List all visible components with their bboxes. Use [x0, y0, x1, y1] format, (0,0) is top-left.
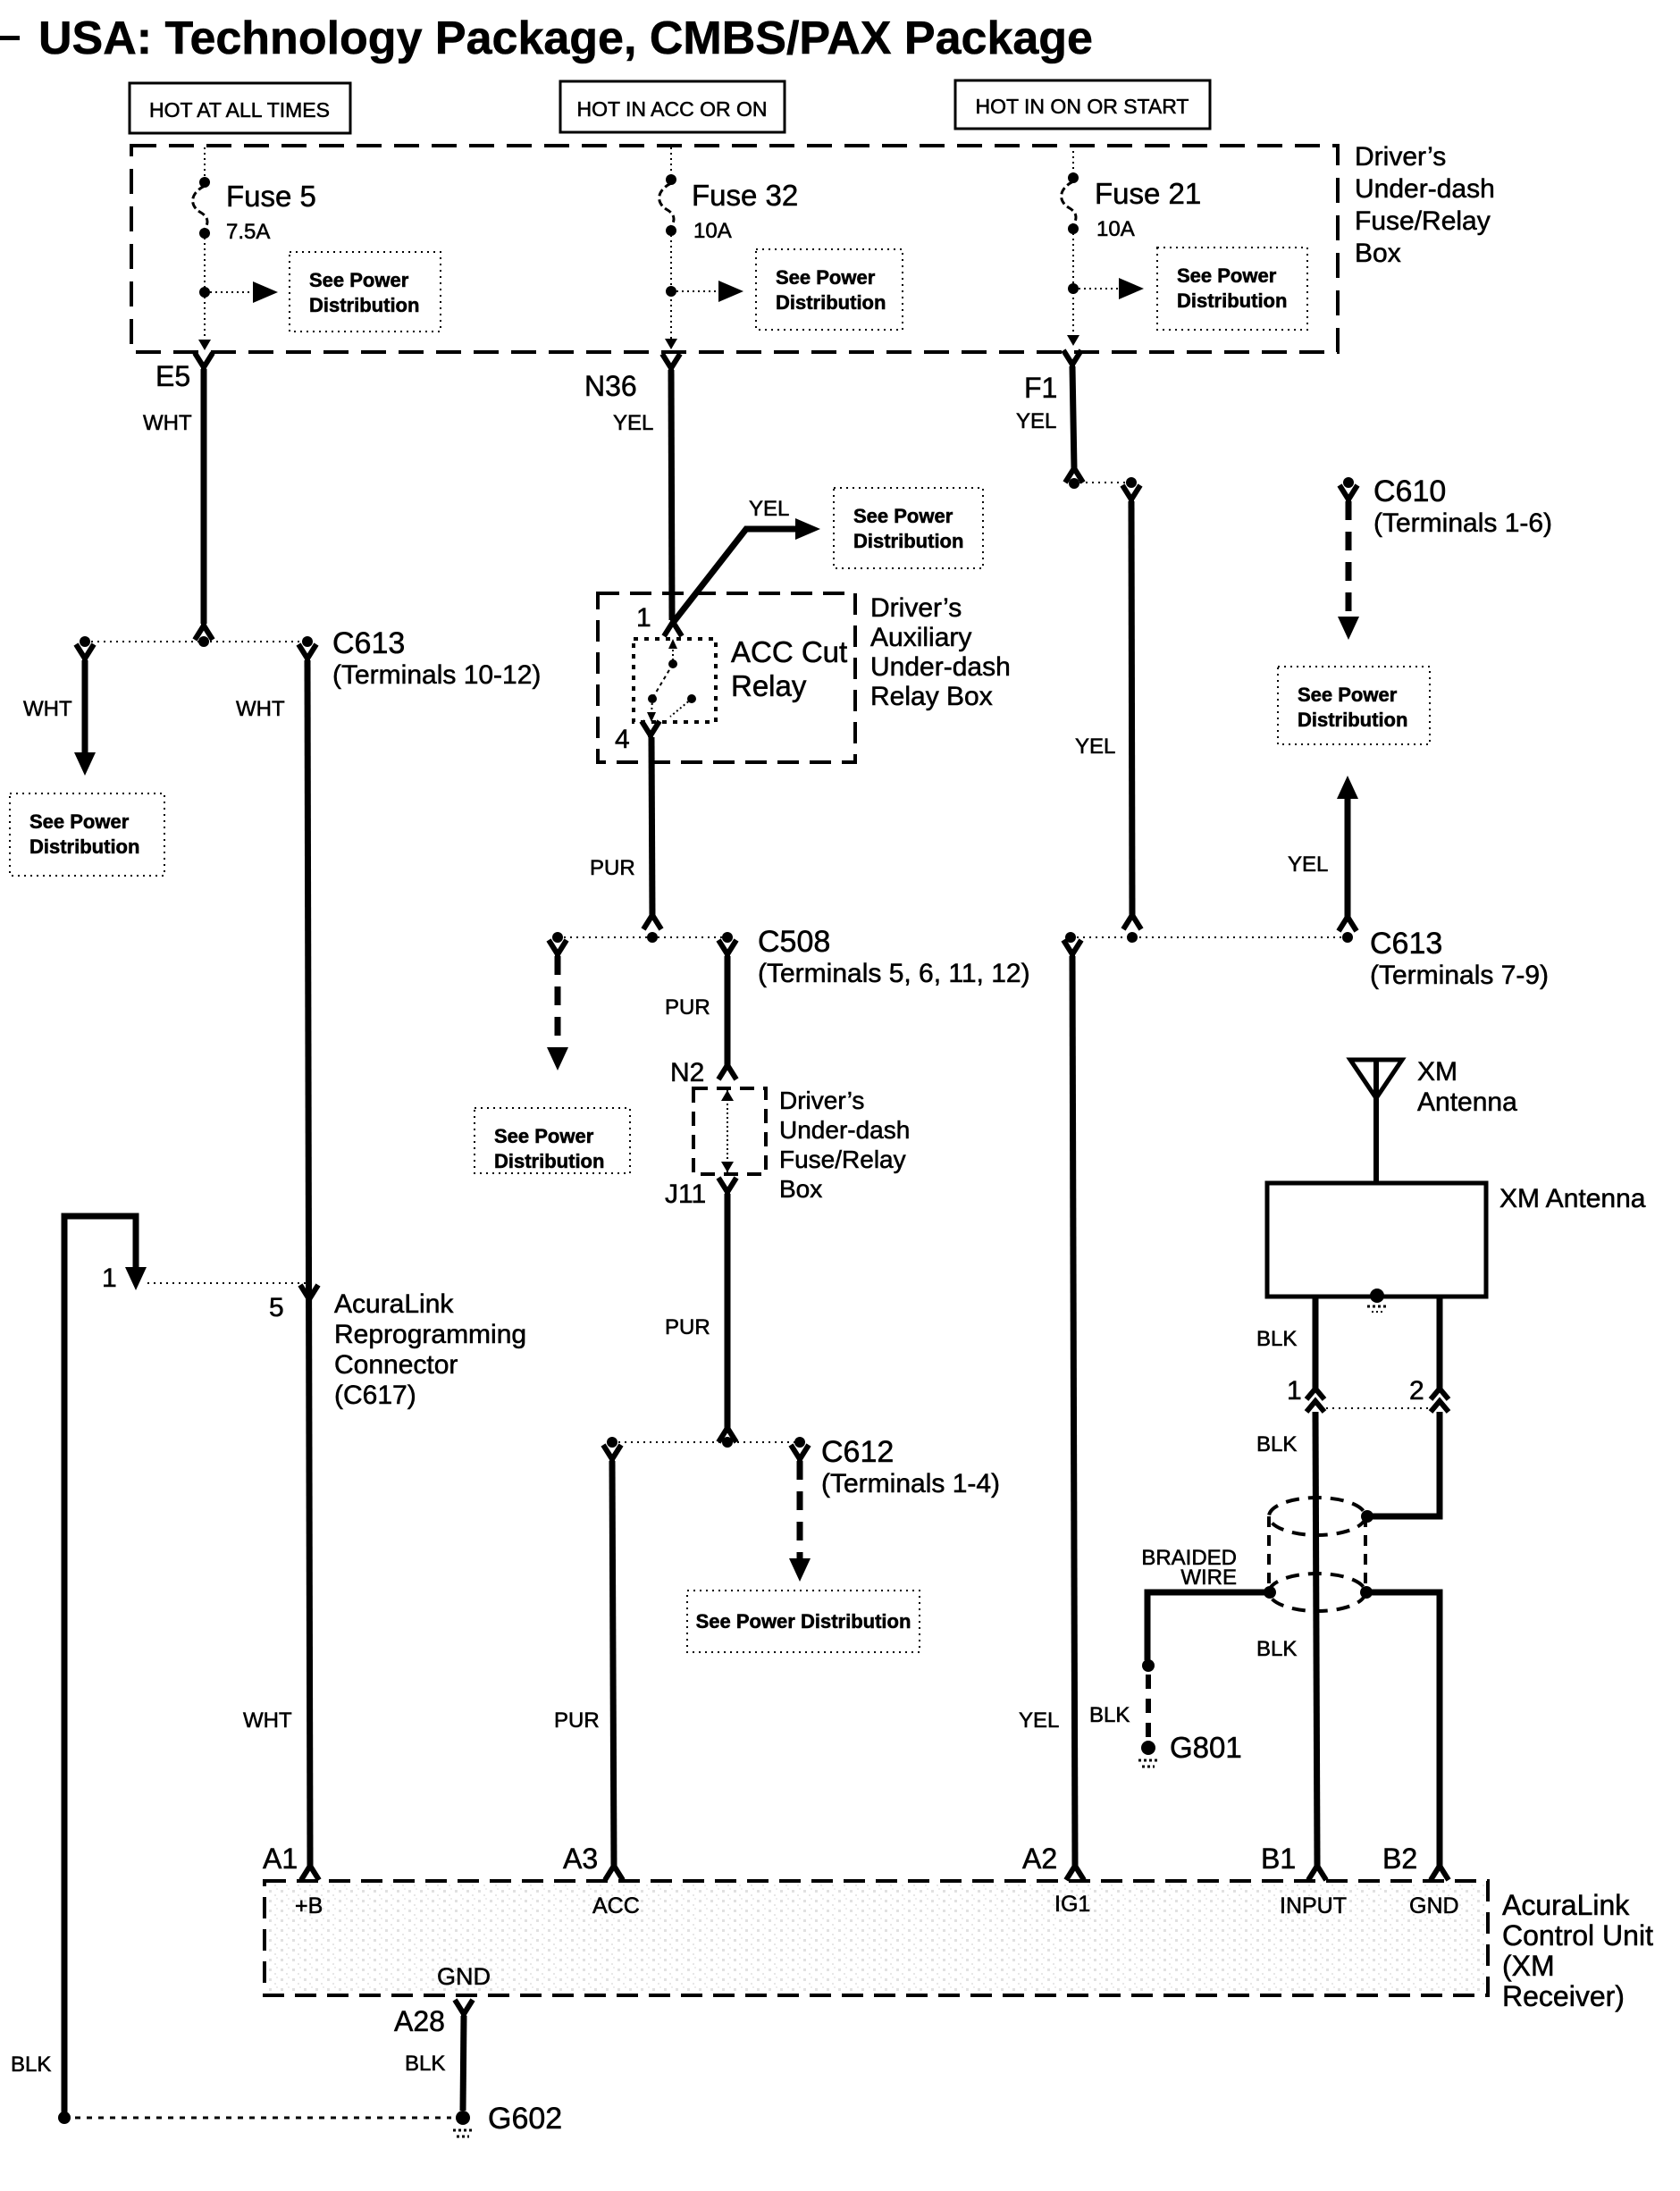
svg-text:See Power: See Power — [309, 269, 409, 291]
node C508 — [552, 925, 1030, 988]
svg-text:B2: B2 — [1382, 1843, 1417, 1875]
relay outer dashed box — [598, 593, 1011, 762]
svg-text:Auxiliary: Auxiliary — [870, 623, 971, 652]
svg-text:YEL: YEL — [1075, 735, 1115, 759]
see power distribution box (C610) — [1278, 667, 1430, 744]
svg-text:Driver’s: Driver’s — [779, 1087, 864, 1114]
svg-text:G801: G801 — [1170, 1731, 1242, 1764]
wire PUR (relay to C508) — [590, 737, 661, 929]
svg-text:Driver’s: Driver’s — [1355, 142, 1446, 172]
svg-text:See Power: See Power — [1298, 684, 1398, 706]
svg-text:C612: C612 — [821, 1435, 894, 1469]
braided wire shield cylinder — [1141, 1498, 1373, 1611]
see power distribution box (ACC relay) — [834, 488, 983, 568]
fuse 32 — [666, 174, 676, 185]
fuse F5 column — [193, 147, 441, 350]
wire BLK antenna left — [1256, 1297, 1315, 1389]
svg-text:Distribution: Distribution — [1177, 290, 1287, 312]
svg-text:BLK: BLK — [1256, 1327, 1297, 1351]
wire BLK shield to B2 — [1366, 1592, 1449, 1880]
svg-text:1: 1 — [1287, 1376, 1302, 1406]
svg-text:(C617): (C617) — [334, 1381, 416, 1410]
wire below fuse 32 (dotted) — [670, 235, 672, 348]
see power distribution box (fuse 5) — [290, 252, 441, 332]
svg-text:C508: C508 — [758, 925, 830, 959]
svg-text:Box: Box — [779, 1175, 822, 1203]
AcuraLink control unit box — [265, 1881, 1653, 2012]
svg-text:Distribution: Distribution — [309, 294, 419, 316]
XM antenna symbol — [1350, 1057, 1517, 1183]
pin E5 — [155, 353, 213, 392]
svg-text:HOT IN ACC OR ON: HOT IN ACC OR ON — [577, 97, 768, 121]
svg-text:Fuse/Relay: Fuse/Relay — [1355, 206, 1491, 236]
svg-text:XM: XM — [1417, 1057, 1457, 1087]
wire shield to ground G801 — [1089, 1592, 1270, 1767]
node C617 — [147, 1283, 526, 1410]
wire below fuse 5 (dotted) — [204, 238, 206, 348]
svg-text:Distribution: Distribution — [29, 835, 139, 858]
svg-text:BLK: BLK — [11, 2052, 51, 2077]
dotted arrow to see power distribution — [210, 291, 265, 293]
connector C610 node — [1338, 474, 1552, 640]
dashed arrow C508 to power distribution — [547, 940, 568, 1070]
svg-text:See Power: See Power — [853, 505, 953, 527]
svg-text:Antenna: Antenna — [1417, 1087, 1517, 1117]
svg-text:C613: C613 — [1370, 927, 1442, 961]
node C613 (terminals 10-12) — [80, 626, 541, 690]
svg-text:Relay: Relay — [731, 669, 807, 702]
svg-text:Driver’s: Driver’s — [870, 593, 962, 623]
svg-text:WIRE: WIRE — [1180, 1566, 1237, 1590]
svg-text:(Terminals 7-9): (Terminals 7-9) — [1370, 961, 1549, 990]
svg-text:Distribution: Distribution — [776, 291, 886, 314]
svg-text:YEL: YEL — [1016, 409, 1056, 433]
svg-text:A1: A1 — [263, 1843, 298, 1875]
ACC cut relay inner box — [634, 635, 847, 722]
svg-text:N2: N2 — [670, 1058, 704, 1087]
dotted arrow to see power distribution — [1079, 288, 1130, 290]
svg-text:Under-dash: Under-dash — [1355, 174, 1495, 204]
svg-text:HOT AT ALL TIMES: HOT AT ALL TIMES — [149, 98, 330, 122]
see power distribution box (fuse 21) — [1157, 248, 1307, 330]
wire below fuse 21 (dotted) — [1072, 233, 1074, 344]
svg-text:See Power: See Power — [776, 266, 876, 289]
dashed arrow C612 to power distribution — [789, 1445, 811, 1582]
dotted arrow to see power distribution — [676, 290, 729, 292]
svg-text:Relay Box: Relay Box — [870, 682, 993, 711]
svg-text:YEL: YEL — [1019, 1708, 1059, 1733]
wire YEL IG1 (C613 to A2) — [1019, 940, 1084, 1880]
svg-text:See Power Distribution: See Power Distribution — [696, 1610, 911, 1633]
wire E5 WHT — [143, 369, 213, 640]
svg-text:PUR: PUR — [554, 1708, 600, 1733]
node at bottom of BLK hook wire — [58, 2111, 451, 2124]
wire PUR (J11 to C612) — [665, 1194, 736, 1442]
svg-text:Reprogramming: Reprogramming — [334, 1320, 526, 1349]
svg-text:ACC: ACC — [592, 1893, 640, 1918]
svg-text:B1: B1 — [1261, 1843, 1296, 1875]
fuse F32 column — [659, 147, 903, 349]
svg-text:See Power: See Power — [1177, 264, 1277, 287]
wire PUR ACC (C612 to A3) — [554, 1445, 623, 1880]
svg-text:AcuraLink: AcuraLink — [1502, 1889, 1630, 1921]
wire YEL (F1 to C613 7-9) — [1075, 485, 1141, 929]
svg-text:XM Antenna: XM Antenna — [1499, 1184, 1646, 1213]
svg-text:2: 2 — [1409, 1376, 1424, 1406]
junction on fuse 32 wire — [666, 286, 676, 297]
wire F1 YEL — [1016, 366, 1083, 483]
svg-text:F1: F1 — [1024, 372, 1057, 404]
svg-text:USA: Technology Package, CMBS/: USA: Technology Package, CMBS/PAX Packag… — [38, 13, 1093, 64]
relay pin 4 — [615, 721, 659, 754]
header box HOT IN ON OR START — [955, 80, 1210, 129]
svg-text:YEL: YEL — [749, 497, 789, 521]
junction on fuse 21 wire — [1068, 283, 1079, 294]
svg-text:N36: N36 — [584, 370, 637, 402]
relay pin 1 — [636, 603, 682, 636]
driver's under-dash fuse/relay box (dashed) — [131, 142, 1495, 352]
YEL arrow up to power distribution (C613 7-9) — [1288, 776, 1358, 931]
dotted link between connectors — [1326, 1407, 1429, 1409]
see power distribution box (C613) — [10, 793, 164, 876]
svg-text:INPUT: INPUT — [1280, 1893, 1347, 1918]
header box HOT IN ACC OR ON — [560, 81, 785, 132]
connector 2 (antenna) — [1409, 1376, 1449, 1412]
svg-text:5: 5 — [269, 1293, 284, 1322]
svg-text:GND: GND — [1409, 1893, 1459, 1918]
node below F1 — [1069, 477, 1137, 489]
N2 / J11 fuse box segment — [665, 1058, 910, 1209]
svg-text:BLK: BLK — [1256, 1637, 1297, 1661]
svg-text:BLK: BLK — [1256, 1432, 1297, 1456]
svg-text:AcuraLink: AcuraLink — [334, 1289, 454, 1319]
svg-text:Under-dash: Under-dash — [779, 1116, 910, 1144]
wire BLK antenna right — [1361, 1297, 1440, 1523]
svg-text:C610: C610 — [1373, 474, 1446, 508]
svg-text:G602: G602 — [488, 2102, 562, 2136]
svg-text:C613: C613 — [332, 626, 405, 660]
svg-text:Fuse 5: Fuse 5 — [226, 180, 316, 213]
svg-text:Control Unit: Control Unit — [1502, 1919, 1653, 1952]
svg-text:Connector: Connector — [334, 1350, 458, 1380]
fuse 5 — [199, 177, 210, 188]
svg-text:BLK: BLK — [405, 2052, 445, 2076]
svg-text:Under-dash: Under-dash — [870, 652, 1011, 682]
node C612 — [607, 1435, 1000, 1498]
wire BLK A28 to G602 — [405, 2016, 464, 2111]
svg-text:7.5A: 7.5A — [226, 220, 270, 244]
relay contacts — [672, 645, 674, 661]
svg-text:GND: GND — [437, 1963, 491, 1990]
WHT arrow to power distribution (C613) — [23, 644, 96, 776]
svg-text:+B: +B — [295, 1893, 323, 1918]
node C613 (terminals 7-9) — [1065, 927, 1549, 990]
pin B1 INPUT — [1261, 1843, 1347, 1918]
wire BLK input center — [1256, 1412, 1326, 1880]
svg-text:Fuse 21: Fuse 21 — [1095, 177, 1201, 210]
svg-text:(Terminals 1-4): (Terminals 1-4) — [821, 1469, 1000, 1498]
fuse F21 column — [1062, 146, 1307, 346]
dashed wire from C610 down — [1346, 501, 1352, 620]
wire N36 YEL — [613, 370, 672, 620]
svg-text:YEL: YEL — [1288, 852, 1328, 877]
svg-text:WHT: WHT — [236, 697, 285, 721]
svg-text:Fuse 32: Fuse 32 — [692, 179, 798, 212]
svg-text:Box: Box — [1355, 239, 1401, 268]
svg-text:A3: A3 — [563, 1843, 598, 1875]
svg-text:Receiver): Receiver) — [1502, 1980, 1625, 2012]
svg-text:1: 1 — [636, 603, 651, 633]
see power distribution box (fuse 32) — [756, 249, 903, 330]
page margin tick — [0, 36, 20, 40]
svg-text:(Terminals 1-6): (Terminals 1-6) — [1373, 508, 1552, 538]
svg-text:IG1: IG1 — [1054, 1892, 1090, 1917]
svg-text:10A: 10A — [693, 219, 732, 243]
svg-text:PUR: PUR — [665, 1315, 710, 1339]
svg-text:A2: A2 — [1022, 1843, 1057, 1875]
svg-text:4: 4 — [615, 725, 630, 754]
wire (dotted) into fuse 21 — [1072, 146, 1074, 174]
pin A2 IG1 — [1022, 1843, 1090, 1917]
wire (dotted) into fuse 5 — [204, 147, 206, 179]
svg-text:PUR: PUR — [665, 995, 710, 1020]
svg-text:See Power: See Power — [29, 810, 130, 833]
svg-text:J11: J11 — [665, 1179, 706, 1209]
svg-text:A28: A28 — [394, 2005, 445, 2037]
AcuraLink reprogramming connector hook wire — [11, 1216, 147, 2118]
YEL branch arrow to see power distribution — [673, 497, 820, 623]
wire WHT (C613 to A1) — [236, 644, 319, 1880]
wire PUR (C508 to N2) — [665, 940, 736, 1079]
svg-text:(XM: (XM — [1502, 1950, 1555, 1982]
svg-text:(Terminals 10-12): (Terminals 10-12) — [332, 660, 541, 690]
svg-text:10A: 10A — [1096, 217, 1135, 241]
svg-text:PUR: PUR — [590, 856, 635, 880]
junction on fuse 5 wire — [199, 287, 210, 298]
svg-text:Distribution: Distribution — [1298, 709, 1407, 731]
pin A3 ACC — [563, 1843, 640, 1918]
svg-text:WHT: WHT — [243, 1708, 292, 1733]
svg-text:WHT: WHT — [23, 697, 72, 721]
pin B2 GND — [1382, 1843, 1459, 1918]
pin F1 — [1024, 350, 1081, 404]
svg-text:ACC Cut: ACC Cut — [731, 635, 847, 668]
svg-text:YEL: YEL — [613, 411, 653, 435]
pin A1 +B — [263, 1843, 323, 1918]
XM antenna box — [1267, 1183, 1646, 1312]
connector 1 (antenna) — [1287, 1376, 1324, 1412]
svg-text:1: 1 — [102, 1263, 117, 1293]
see power distribution box (C612) — [687, 1591, 920, 1652]
svg-text:Fuse/Relay: Fuse/Relay — [779, 1146, 906, 1173]
svg-text:WHT: WHT — [143, 411, 192, 435]
svg-text:See Power: See Power — [494, 1125, 594, 1147]
wire (dotted) into fuse 32 — [670, 147, 672, 176]
pin N36 — [584, 354, 680, 402]
pin A28 GND — [394, 1963, 491, 2037]
fuse 21 — [1068, 172, 1079, 183]
see power distribution box (C508) — [475, 1108, 630, 1173]
svg-text:Distribution: Distribution — [853, 530, 963, 552]
ground G602 — [453, 2102, 562, 2136]
svg-text:Distribution: Distribution — [494, 1150, 604, 1172]
svg-text:HOT IN ON OR START: HOT IN ON OR START — [976, 95, 1189, 118]
svg-text:(Terminals 5, 6, 11, 12): (Terminals 5, 6, 11, 12) — [758, 959, 1030, 988]
header box HOT AT ALL TIMES — [130, 83, 350, 133]
svg-text:BLK: BLK — [1089, 1703, 1130, 1727]
svg-text:E5: E5 — [155, 360, 190, 392]
